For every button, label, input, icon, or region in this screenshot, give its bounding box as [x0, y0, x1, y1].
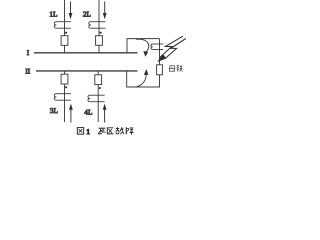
- wire feeder 4L upper: [97, 71, 99, 75]
- arrow current 1L: [69, 2, 73, 20]
- svg-text:4L: 4L: [84, 108, 93, 117]
- arrow current 3L: [69, 104, 73, 123]
- svg-text:1: 1: [86, 128, 90, 136]
- arrow fault current from bus I (curved, down): [136, 39, 149, 57]
- relay box 1L: [61, 36, 68, 46]
- CT current transformer 1L: [54, 22, 71, 29]
- relay box 4L: [95, 75, 102, 85]
- glyph mu: [169, 66, 175, 72]
- arrow fault current from bus II (curved, up): [137, 69, 149, 86]
- wire bus-tie right edge lower, bottom edge, bus II riser: [127, 71, 160, 87]
- svg-text:II: II: [25, 67, 30, 75]
- node I bus label: [27, 49, 30, 57]
- label 1L: [49, 10, 58, 19]
- arrow current 2L: [103, 2, 107, 20]
- label mulian (bus-tie) hand-drawn glyphs: [169, 65, 183, 72]
- wire bus II: [36, 70, 138, 72]
- glyph si (dead): [98, 128, 105, 134]
- svg-text:1L: 1L: [49, 10, 58, 19]
- node II bus label: [25, 67, 30, 75]
- relay box 3L: [61, 74, 68, 84]
- label 3L: [50, 106, 59, 115]
- svg-text:3L: 3L: [50, 106, 59, 115]
- CT polarity dot 1L: [65, 32, 67, 34]
- relay box 2L: [96, 36, 103, 46]
- CT current transformer bus-tie: [151, 44, 163, 50]
- glyph zhang (barrier): [126, 127, 133, 134]
- CT polarity dot 2L: [100, 32, 102, 34]
- arrow current 4L: [103, 104, 107, 123]
- wire feeder 1L upper: [64, 0, 66, 36]
- glyph gu (incident): [116, 127, 124, 134]
- wire feeder 2L lower: [98, 45, 100, 53]
- label 4L: [84, 108, 93, 117]
- wire feeder 2L upper: [98, 0, 100, 36]
- wire bus I: [34, 52, 138, 54]
- svg-text:I: I: [27, 49, 30, 57]
- svg-text:2L: 2L: [83, 10, 92, 19]
- CT current transformer 3L: [54, 94, 71, 101]
- relay box bus-tie (mulian): [157, 65, 163, 75]
- CT polarity dot 3L: [65, 86, 67, 88]
- caption: figure 1 dead zone fault (hand-drawn glyphs): [77, 127, 133, 136]
- CT current transformer 4L: [88, 95, 105, 102]
- wire feeder 3L lower: [64, 84, 66, 122]
- CT current transformer 2L: [89, 22, 106, 29]
- wire bus-tie loop: bus I riser, top edge: [127, 39, 160, 53]
- fault lightning bolt: [157, 36, 186, 62]
- digit 1: [86, 128, 90, 136]
- wire feeder 3L upper: [64, 71, 66, 74]
- wire feeder 1L lower: [64, 45, 66, 53]
- glyph qu (zone): [107, 128, 113, 134]
- glyph lian: [177, 65, 183, 72]
- CT polarity dot 4L: [99, 87, 101, 89]
- label 2L: [83, 10, 92, 19]
- wire feeder 4L lower: [97, 85, 99, 122]
- glyph tu (figure): [77, 128, 83, 135]
- wire bus-tie right edge upper: [159, 39, 161, 65]
